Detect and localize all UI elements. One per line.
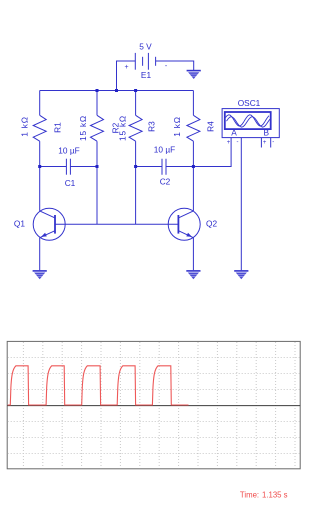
ground (Q2 emitter)	[186, 271, 200, 279]
resistor R3	[129, 91, 142, 225]
svg-text:C2: C2	[160, 177, 171, 187]
OSC1 B- pin stub	[270, 138, 272, 148]
svg-text:Q2: Q2	[206, 219, 217, 229]
resistor R4	[187, 91, 200, 167]
svg-text:1 kΩ: 1 kΩ	[19, 116, 29, 136]
resistor R2	[91, 91, 104, 225]
svg-text:R1: R1	[52, 122, 62, 133]
battery E1	[135, 53, 155, 70]
wire battery negative lead to ground	[156, 61, 194, 70]
svg-text:15 kΩ: 15 kΩ	[117, 115, 127, 141]
svg-text:R3: R3	[146, 121, 156, 132]
svg-text:-: -	[237, 140, 239, 146]
ground (Q1 emitter)	[33, 271, 47, 279]
svg-text:E1: E1	[141, 70, 152, 80]
capacitor C1	[40, 159, 97, 175]
wire top rail	[40, 90, 194, 92]
svg-text:OSC1: OSC1	[238, 98, 261, 108]
junction node C1-R2	[96, 165, 99, 168]
grapher zero axis	[7, 405, 300, 407]
wire OSC1 A+ to Q2 collector node	[193, 138, 231, 167]
svg-text:-: -	[165, 63, 168, 70]
svg-text:Q1: Q1	[14, 219, 25, 229]
junction node C2-R4-scope	[192, 165, 195, 168]
ground (OSC1 A-)	[234, 271, 248, 279]
grapher horizontal gridlines	[8, 358, 300, 454]
svg-text:10 µF: 10 µF	[58, 146, 79, 156]
junction node rail-battery	[115, 89, 118, 92]
resistor R1	[33, 91, 46, 167]
junction node R3-C2	[134, 165, 137, 168]
svg-text:B: B	[264, 128, 270, 138]
svg-text:10 µF: 10 µF	[154, 145, 175, 155]
svg-text:+: +	[263, 140, 267, 146]
svg-text:Time:: Time:	[240, 490, 259, 499]
wire common base row	[55, 223, 178, 225]
svg-text:C1: C1	[65, 178, 76, 188]
wire battery positive lead to rail	[117, 61, 136, 91]
transistor Q1	[33, 167, 65, 271]
grapher plot frame	[7, 341, 300, 468]
junction node R1-C1	[38, 165, 41, 168]
junction node rail-R2	[96, 89, 99, 92]
svg-text:+: +	[227, 140, 231, 146]
transistor Q2	[168, 167, 200, 271]
svg-text:1.135 s: 1.135 s	[262, 490, 288, 499]
grapher vertical gridlines	[23, 342, 295, 468]
waveform trace (Q2 collector voltage)	[8, 366, 189, 405]
capacitor C2	[136, 159, 194, 175]
svg-text:15 kΩ: 15 kΩ	[78, 115, 88, 141]
oscilloscope U=OSC1 icon	[222, 109, 279, 138]
svg-text:R4: R4	[205, 121, 215, 132]
junction node rail-R3	[134, 89, 137, 92]
svg-text:1 kΩ: 1 kΩ	[172, 116, 182, 136]
wire OSC1 A- to ground	[240, 138, 242, 271]
svg-text:A: A	[231, 128, 237, 138]
svg-text:5 V: 5 V	[139, 42, 152, 52]
ground (battery)	[187, 71, 201, 79]
OSC1 B+ pin stub	[260, 138, 262, 148]
svg-text:-: -	[272, 140, 274, 146]
svg-text:+: +	[124, 64, 128, 71]
